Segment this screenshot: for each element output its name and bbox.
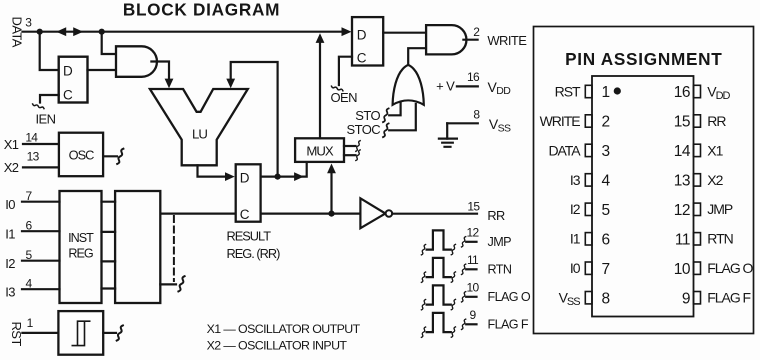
pin row 2: WRITE / 2 / 15 / RR [585,115,700,127]
svg-text:REG: REG [68,246,92,260]
pin row 7: I0 / 7 / 10 / FLAG O [585,262,700,274]
squiggle IEN break [33,104,44,109]
svg-text:C: C [357,51,367,66]
svg-text:C: C [63,88,73,103]
pin row 4: I3 / 4 / 13 / X2 [585,174,700,186]
mux MUX1 [295,138,344,162]
svg-text:3: 3 [602,143,610,160]
pin row 8: VSS / 8 / 9 / FLAG F [585,292,700,304]
register decode box (right of INST REG) [115,191,160,303]
svg-text:2: 2 [473,25,480,39]
wire instruction bus to result reg C and buffer (long RR line) [160,213,360,215]
pin row 1: RST / 1 / 16 / VDD [585,85,700,97]
wire OSC output [103,155,117,157]
register INST REG [60,191,102,303]
svg-text:D: D [357,28,367,43]
wire X2 pin 13 [23,166,59,168]
wire DATA bus [23,31,345,33]
pulse shaper RST box [58,311,103,355]
svg-text:4: 4 [26,276,33,290]
svg-text:I2: I2 [5,256,15,271]
pulse symbol inside RST box [72,321,89,345]
svg-text:1: 1 [27,316,34,330]
svg-text:I3: I3 [570,172,581,188]
buffer U4 (RR output) [360,198,385,228]
svg-text:11: 11 [467,253,479,267]
svg-text:10: 10 [467,280,480,294]
svg-text:11: 11 [675,232,690,249]
svg-text:RST: RST [555,83,581,99]
wire MUX out to DATA bus [319,41,321,138]
pulse symbol FLAG F pin 9 [421,313,476,337]
svg-text:STOC: STOC [347,122,381,137]
svg-text:8: 8 [473,108,480,122]
svg-text:13: 13 [27,150,40,164]
svg-text:IEN: IEN [36,112,56,127]
svg-text:RTN: RTN [707,231,732,247]
wire DATA to DFF1 D input [40,32,59,70]
svg-text:D: D [63,64,73,79]
svg-text:OSC: OSC [69,147,94,162]
wire I2 pin 5 [22,260,60,262]
svg-text:STO: STO [355,108,380,123]
svg-text:12: 12 [467,225,480,239]
wire IEN to U1 C input [40,95,59,103]
svg-text:RTN: RTN [488,263,512,277]
svg-text:9: 9 [682,290,690,307]
bidirectional arrowheads on DATA bus [56,27,83,36]
wire U3 Q to MUX lower-left input [261,162,307,177]
svg-text:+ V: + V [436,78,455,93]
svg-text:I3: I3 [5,284,15,299]
svg-text:15: 15 [467,200,480,214]
wire I0 pin 7 [22,201,60,203]
svg-text:VDD: VDD [488,79,512,97]
junction node B (DATA/AND1) [99,29,105,35]
svg-text:16: 16 [467,70,480,84]
svg-text:7: 7 [26,189,33,203]
svg-text:6: 6 [26,218,33,232]
svg-text:FLAG F: FLAG F [488,318,529,332]
wire I1 pin 6 [22,230,60,232]
wire link1 between registers [102,201,116,203]
svg-text:C: C [240,207,250,222]
svg-text:10: 10 [674,261,691,278]
svg-text:FLAG O: FLAG O [707,260,753,276]
logic unit LU (funnel) [150,89,248,165]
svg-text:16: 16 [674,84,690,101]
wire STO to OR1 [389,102,400,115]
svg-text:15: 15 [674,114,690,131]
svg-text:D: D [240,170,250,185]
wire RR output pin 15 [392,213,477,215]
svg-text:INST: INST [68,231,94,245]
svg-text:RST: RST [9,321,24,346]
svg-text:X2 — OSCILLATOR INPUT: X2 — OSCILLATOR INPUT [207,339,348,353]
svg-text:WRITE: WRITE [487,33,527,48]
gate AND2 (WRITE) [426,25,466,54]
svg-text:RR: RR [707,113,726,129]
wire DATA to AND1 top input [102,32,116,54]
svg-text:OEN: OEN [331,90,358,105]
svg-text:I0: I0 [570,260,581,276]
register U3 RESULT REG (RR) [236,164,261,221]
svg-text:FLAG O: FLAG O [488,290,531,304]
junction node D (RR line / MUX) [328,211,334,217]
pin 1 marker dot [614,87,621,94]
wire X1 pin 14 [23,143,59,145]
svg-text:PIN ASSIGNMENT: PIN ASSIGNMENT [565,49,722,69]
svg-text:X1 — OSCILLATOR OUTPUT: X1 — OSCILLATOR OUTPUT [207,322,361,336]
wire U1 Q to AND1 [88,69,117,71]
wire RST pin 1 [22,332,58,334]
wire I3 pin 4 [22,288,60,290]
gate AND1 [116,46,157,77]
svg-text:5: 5 [26,248,33,262]
svg-text:12: 12 [674,202,690,219]
svg-text:JMP: JMP [707,201,733,217]
svg-text:7: 7 [602,261,610,278]
svg-text:8: 8 [602,290,610,307]
svg-text:6: 6 [602,232,610,249]
svg-text:DATA: DATA [548,142,581,158]
wire OEN to U2 C input [339,57,352,85]
waveform rows JMP/RTN/FLAG O/FLAG F [421,225,530,337]
svg-text:WRITE: WRITE [540,113,581,129]
svg-text:X2: X2 [707,172,723,188]
panel border [534,27,754,334]
svg-text:MUX: MUX [306,143,334,158]
pin row 5: I2 / 5 / 12 / JMP [585,203,700,215]
svg-text:2: 2 [602,114,610,131]
pulse symbol JMP pin 12 [421,230,476,254]
PIN ASSIGNMENT panel [534,27,754,334]
svg-text:4: 4 [602,173,611,190]
junction node A (DATA/DFF1) [37,29,43,35]
wire link4 [102,287,116,289]
svg-text:JMP: JMP [488,235,512,249]
flip-flop U1 (D/C latch) [59,57,88,103]
svg-text:I2: I2 [570,201,581,217]
wire dashed link [173,216,175,281]
svg-text:9: 9 [470,308,477,322]
svg-text:I0: I0 [5,197,15,212]
wire OR1 out to AND2 [408,48,426,65]
wire feedback from RR-D node to LU right input [231,62,278,177]
ground [439,139,457,147]
svg-text:14: 14 [25,130,38,144]
svg-text:REG. (RR): REG. (RR) [227,246,281,261]
wire U2 Q to AND2 [383,32,426,34]
wire AND1 out to LU left input [151,62,169,82]
IC body [592,76,694,317]
svg-text:13: 13 [674,173,690,190]
wire MUX select STOC [344,154,356,156]
wire RR line to MUX bottom input [330,172,332,214]
wire RST output [103,332,116,334]
pulse symbol FLAG O pin 10 [421,285,476,309]
svg-text:FLAG F: FLAG F [707,290,750,306]
wire MUX select STO [344,145,356,147]
wire link3 [102,260,116,262]
svg-text:VDD: VDD [707,83,730,102]
wire WRITE output pin 2 [463,39,477,41]
svg-text:X1: X1 [4,137,19,152]
svg-text:BLOCK DIAGRAM: BLOCK DIAGRAM [123,0,280,20]
svg-text:I1: I1 [570,231,581,247]
oscillator OSC1 [59,133,103,177]
arrowhead into U2 D input [342,27,352,36]
flip-flop U2 (D/C latch, write) [352,17,383,65]
wire link2 [102,231,116,233]
gate OR1 (points up) [393,65,424,105]
svg-text:RR: RR [487,208,505,223]
svg-text:X2: X2 [4,160,19,175]
svg-text:14: 14 [674,143,691,160]
pulse symbol RTN pin 11 [421,258,476,282]
junction node C (RR-D feedback) [275,174,281,180]
svg-text:LU: LU [192,127,207,142]
wire decode box lower output [160,283,176,285]
wire STOC to OR1 [389,104,416,130]
svg-text:VSS: VSS [559,290,581,309]
svg-text:I1: I1 [5,226,15,241]
svg-text:1: 1 [602,84,610,101]
wire LU out to result register D [198,165,228,176]
svg-text:3: 3 [25,16,32,30]
pin row 3: DATA / 3 / 14 / X1 [585,144,700,156]
svg-text:VSS: VSS [489,116,511,134]
svg-text:5: 5 [602,202,610,219]
pin row 6: I1 / 6 / 11 / RTN [585,233,700,245]
svg-text:X1: X1 [707,142,723,158]
svg-text:RESULT: RESULT [227,228,272,243]
